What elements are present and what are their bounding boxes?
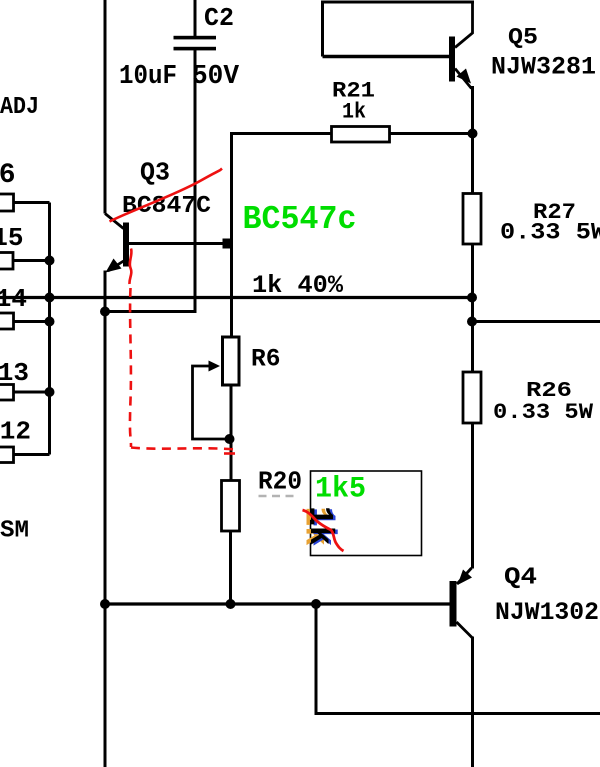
transistor Q4 collector line — [457, 622, 473, 638]
transistor Q4 base bar — [450, 581, 457, 627]
wire: main left vertical rail lower (from Q3 emitter to bottom) — [104, 271, 107, 767]
resistor chain: vertical bus — [48, 203, 51, 455]
node: junction dot chain 14 — [45, 317, 55, 327]
wire: feedback branch down and right — [316, 604, 600, 714]
wire: main horizontal rail — [0, 296, 473, 299]
red short dash — [224, 452, 235, 455]
grey dashed underline — [259, 495, 297, 498]
svg-text:0.33 5W: 0.33 5W — [493, 400, 594, 425]
wire: R6 bottom lead — [230, 384, 233, 480]
transistor Q3 base wire — [129, 242, 230, 245]
svg-text:Q5: Q5 — [508, 25, 538, 51]
wire: R20 bottom lead — [229, 531, 232, 604]
svg-text:10uF: 10uF — [119, 62, 177, 92]
wire: C2 top lead — [194, 0, 197, 37]
node: junction dot R21 right — [468, 129, 478, 139]
red dashed horizontal annotation — [131, 448, 236, 450]
transistor Q3 collector line — [105, 214, 124, 229]
svg-text:12: 12 — [0, 417, 31, 447]
wire: R21 left lead and corner down to R6 — [232, 134, 332, 338]
R6 wiper arrow — [209, 361, 221, 372]
resistor 6 body — [0, 194, 14, 211]
transistor Q4 emitter arrow (PNP, pointing to bar) — [458, 570, 473, 586]
svg-text:ADJ: ADJ — [0, 94, 39, 121]
red squiggle below Q3 — [129, 249, 131, 285]
resistor R20 body — [222, 481, 240, 532]
resistor R27 body — [463, 194, 481, 245]
potentiometer R6 body — [223, 337, 240, 385]
svg-text:NJW3281: NJW3281 — [491, 53, 596, 82]
capacitor C2 top plate — [174, 36, 217, 40]
node: junction dot R6 bottom — [225, 434, 235, 444]
node: junction dot feedback branch — [311, 599, 321, 609]
wire: resistor 15 lead — [13, 259, 50, 262]
node: square junction dot Q3 base to R21 corner wire — [223, 239, 233, 249]
capacitor C2 bottom plate — [174, 47, 217, 51]
wire: Q4 base wire — [105, 602, 450, 605]
svg-text:R20: R20 — [258, 467, 302, 497]
wire: C2 bottom lead down and left to rail — [105, 50, 195, 312]
svg-text:R6: R6 — [251, 345, 281, 374]
transistor Q3 emitter arrow — [106, 259, 122, 273]
resistor 14 body — [0, 313, 14, 329]
resistor R21 body — [332, 127, 390, 143]
wire: Q5 collector from top — [455, 2, 473, 48]
resistor 13 body — [0, 385, 14, 401]
wire: Q5 base wire — [323, 55, 450, 59]
resistor 15 body — [0, 253, 13, 270]
node: junction dot main rail at left chain — [45, 293, 55, 303]
wire: right rail R27 to R26 — [471, 244, 474, 372]
svg-text:BC547c: BC547c — [243, 201, 357, 238]
svg-text:Q3: Q3 — [140, 158, 170, 188]
transistor Q3 emitter line — [108, 261, 124, 271]
annotation red strike scribble — [303, 510, 344, 551]
wire: right rail from Q5 emitter to R27 — [471, 86, 474, 193]
wire: R21 right lead — [390, 132, 473, 135]
node: junction dot main rail right end — [467, 293, 477, 303]
wire: resistor 12 lead — [14, 453, 50, 456]
wire: main left vertical rail upper (to Q3 collector) — [104, 0, 107, 214]
wire: resistor 6 lead — [14, 201, 50, 204]
wire: branch to right edge — [473, 320, 600, 323]
svg-text:1k5: 1k5 — [315, 473, 366, 507]
svg-text:0.33 5W: 0.33 5W — [500, 220, 600, 246]
transistor Q5 emitter arrow — [457, 69, 472, 84]
transistor Q3 base bar — [123, 223, 129, 267]
node: junction dot chain 13 — [45, 387, 55, 397]
red annotation diagonal through BC847C — [110, 169, 223, 222]
wire: right rail R26 to Q4 — [471, 423, 474, 569]
svg-text:SM: SM — [0, 518, 29, 545]
svg-text:14: 14 — [0, 284, 27, 314]
red dashed vertical annotation — [130, 288, 131, 447]
transistor Q5 base bar — [449, 37, 455, 82]
node: junction dot right rail upper — [467, 317, 477, 327]
wire: top loop left vertical — [321, 2, 324, 57]
svg-text:1k: 1k — [342, 100, 366, 125]
svg-text:6: 6 — [0, 160, 16, 191]
svg-text:Q4: Q4 — [504, 565, 537, 592]
wire: resistor 13 lead — [14, 391, 50, 394]
svg-text:15: 15 — [0, 223, 24, 253]
transistor Q5 emitter line — [455, 69, 472, 89]
resistor R26 body — [463, 372, 481, 423]
resistor 12 body — [0, 447, 14, 463]
transistor Q4 emitter line — [457, 568, 472, 584]
node: junction dot R20 on base wire — [226, 599, 236, 609]
wire: Q4 collector down to bottom — [471, 637, 474, 767]
svg-text:NJW1302: NJW1302 — [495, 598, 599, 627]
wire: resistor 14 lead — [14, 320, 50, 323]
svg-text:50V: 50V — [192, 62, 240, 92]
wire: top loop horizontal (collector-base tie of Q5) — [321, 1, 474, 4]
node: junction dot base wire on left rail — [100, 599, 110, 609]
annotation box — [311, 471, 422, 556]
node: junction dot chain 15 — [45, 256, 55, 266]
wire: R6 wiper loop — [193, 366, 230, 439]
node: junction dot C2 stub on rail — [100, 307, 110, 317]
svg-text:1k 40%: 1k 40% — [252, 271, 344, 300]
svg-text:C2: C2 — [204, 3, 234, 33]
